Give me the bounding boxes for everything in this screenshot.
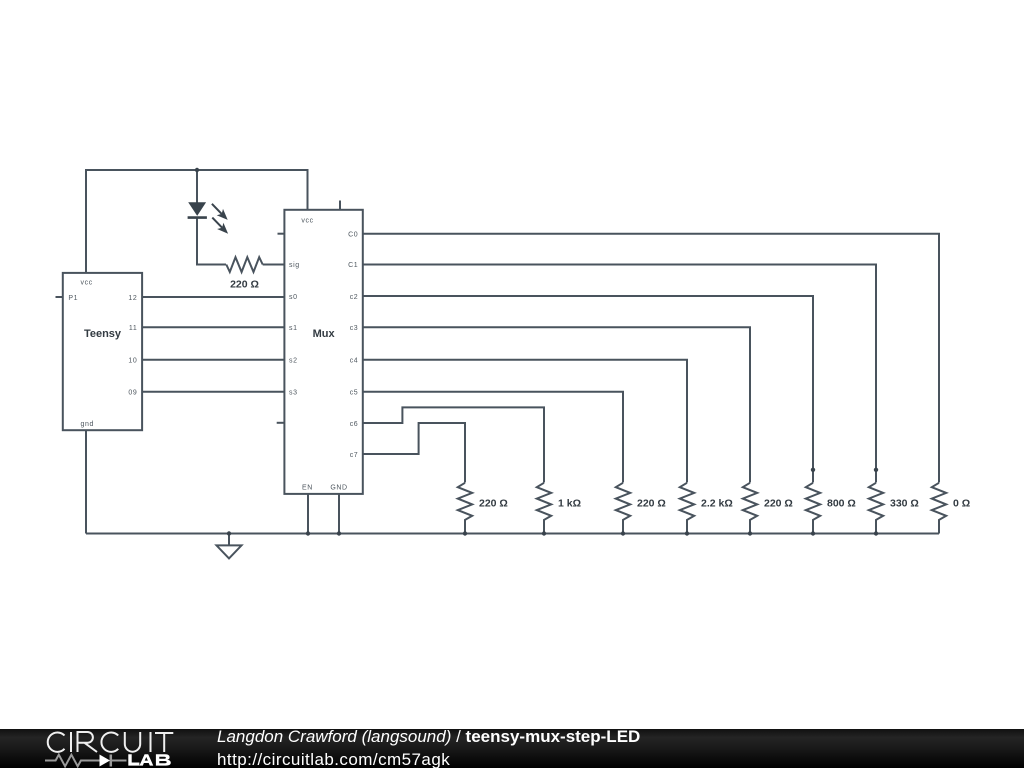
svg-text:Mux: Mux <box>313 328 336 340</box>
wire Mux C1 to R7 <box>363 265 876 483</box>
svg-text:11: 11 <box>129 325 137 332</box>
svg-text:220 Ω: 220 Ω <box>479 498 508 510</box>
footer attribution text <box>217 726 640 770</box>
resistor R2 1k <box>537 483 551 534</box>
wire Teensy 12 to Mux s0 <box>142 296 284 298</box>
svg-text:s2: s2 <box>289 358 298 365</box>
junction R5 rail <box>748 531 752 535</box>
ground symbol <box>217 534 242 559</box>
svg-text:10: 10 <box>128 358 137 365</box>
logo CIRCUIT letters <box>48 732 174 752</box>
junction R6 rail <box>811 531 815 535</box>
junction wire R6 <box>811 468 815 472</box>
junction GND rail <box>337 531 341 535</box>
pin stub Mux left lower <box>277 422 285 424</box>
junction wire R7 <box>874 468 878 472</box>
junction R1 rail <box>463 531 467 535</box>
svg-text:220 Ω: 220 Ω <box>230 279 259 291</box>
wire Teensy 10 to Mux s2 <box>142 359 284 361</box>
LED D1 <box>188 202 229 233</box>
svg-text:220 Ω: 220 Ω <box>637 498 666 510</box>
wire R9 to Mux sig pin <box>263 264 285 266</box>
junction R2 rail <box>542 531 546 535</box>
svg-text:vcc: vcc <box>301 217 313 224</box>
junction EN rail <box>306 531 310 535</box>
resistor R5 220 ohm <box>743 483 757 534</box>
svg-text:c3: c3 <box>350 325 359 332</box>
svg-text:gnd: gnd <box>81 421 94 428</box>
wire Mux c5 to R3 <box>363 392 623 483</box>
wire Teensy gnd to ground rail <box>85 430 87 533</box>
svg-text:09: 09 <box>128 390 137 397</box>
footer bar <box>0 729 1024 768</box>
svg-text:0 Ω: 0 Ω <box>953 498 970 510</box>
resistor R1 220 ohm <box>458 483 472 534</box>
wire LED anode <box>196 170 198 203</box>
logo resistor-diode glyph <box>45 754 127 766</box>
svg-text:s3: s3 <box>289 390 298 397</box>
resistor R8 0 ohm <box>932 483 946 534</box>
svg-text:c6: c6 <box>350 421 359 428</box>
svg-text:GND: GND <box>330 485 347 492</box>
wire Mux c6 to R2 <box>363 407 544 482</box>
IC Mux box <box>284 210 362 494</box>
junction ground tap <box>227 531 231 535</box>
wire Teensy vcc to top rail <box>85 170 87 273</box>
svg-text:C1: C1 <box>348 262 358 269</box>
wire Teensy 09 to Mux s3 <box>142 391 284 393</box>
wire Mux c3 to R5 <box>363 327 750 482</box>
junction R7 rail <box>874 531 878 535</box>
svg-text:330 Ω: 330 Ω <box>890 498 919 510</box>
svg-text:c5: c5 <box>350 390 359 397</box>
wire top rail to Mux vcc <box>307 169 309 210</box>
svg-text:P1: P1 <box>68 295 78 302</box>
resistor R4 2.2k <box>680 483 694 534</box>
svg-text:sig: sig <box>289 262 300 269</box>
pin stub Mux left upper <box>278 233 285 235</box>
svg-text:220 Ω: 220 Ω <box>764 498 793 510</box>
junction R3 rail <box>621 531 625 535</box>
ground rail <box>86 533 939 535</box>
junction top rail LED tap <box>195 168 199 172</box>
resistor R3 220 ohm <box>616 483 630 534</box>
resistor R7 330 ohm <box>869 483 883 534</box>
svg-text:800 Ω: 800 Ω <box>827 498 856 510</box>
svg-text:c7: c7 <box>350 452 359 459</box>
wire Mux C0 to R8 <box>363 234 939 483</box>
pin stub Teensy P1 <box>56 296 63 298</box>
svg-text:1 kΩ: 1 kΩ <box>558 498 581 510</box>
svg-text:2.2 kΩ: 2.2 kΩ <box>701 498 733 510</box>
wire LED cathode down and right <box>197 218 226 265</box>
svg-text:c2: c2 <box>350 294 359 301</box>
logo LAB text <box>0 729 200 768</box>
wire Mux c4 to R4 <box>363 360 687 483</box>
wire Teensy 11 to Mux s1 <box>142 326 284 328</box>
svg-text:c4: c4 <box>350 358 359 365</box>
wire Mux EN to ground rail <box>307 494 309 534</box>
svg-text:vcc: vcc <box>81 280 93 287</box>
wire Mux c7 to R1 <box>363 423 465 483</box>
resistor R9 220 ohm horizontal <box>226 257 262 272</box>
wire Mux GND to ground rail <box>338 494 340 534</box>
svg-text:C0: C0 <box>348 231 358 238</box>
svg-text:s0: s0 <box>289 294 298 301</box>
svg-text:EN: EN <box>302 485 313 492</box>
wire top rail <box>85 169 308 171</box>
svg-text:Teensy: Teensy <box>84 328 122 340</box>
pin stub Mux top <box>339 201 341 210</box>
resistor R6 800 ohm <box>806 483 820 534</box>
IC Teensy box <box>63 273 142 430</box>
svg-text:12: 12 <box>128 295 137 302</box>
junction R4 rail <box>685 531 689 535</box>
wire Mux c2 to R6 <box>363 296 813 483</box>
svg-text:s1: s1 <box>289 325 298 332</box>
